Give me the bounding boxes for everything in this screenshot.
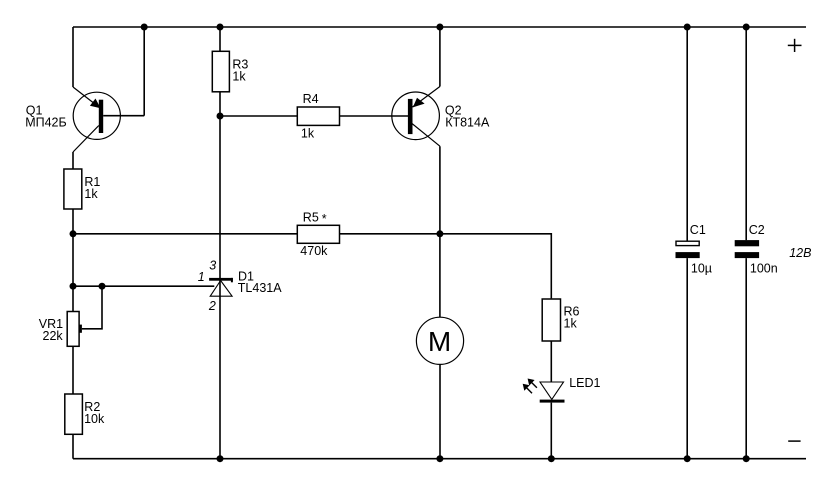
node top rail C2 <box>743 24 750 31</box>
transistor Q2 <box>392 87 440 147</box>
wire R2 to bottom rail <box>72 434 74 458</box>
wire R3 bottom to bottom rail through D1 <box>219 92 221 459</box>
svg-text:C2: C2 <box>749 223 765 237</box>
node R5 row x440 <box>436 230 443 237</box>
node top rail C1 <box>684 24 691 31</box>
node top rail x440 <box>436 24 443 31</box>
resistor R6 <box>542 299 560 341</box>
wire C2 bottom lead <box>745 258 747 459</box>
node R3 bottom / R4 <box>217 113 224 120</box>
LED LED1 <box>523 379 565 403</box>
svg-text:КТ814А: КТ814А <box>445 116 490 130</box>
wire R5 row right <box>340 234 552 299</box>
wire Q1 base riser <box>143 27 145 116</box>
wire D1 reference from left <box>73 285 214 287</box>
wire LED to bottom rail <box>550 403 552 459</box>
node bottom rail x220 <box>217 455 224 462</box>
shunt regulator D1 TL431A <box>209 278 233 296</box>
wire R5 row left <box>73 233 297 235</box>
node bottom rail x440 <box>436 455 443 462</box>
wire R6 to LED <box>550 341 552 382</box>
svg-text:2: 2 <box>208 299 216 313</box>
wire R3 top lead <box>219 27 221 51</box>
svg-text:10k: 10k <box>84 412 105 426</box>
node top rail x220 <box>217 24 224 31</box>
svg-text:C1: C1 <box>690 223 706 237</box>
svg-text:100n: 100n <box>750 262 778 276</box>
svg-text:МП42Б: МП42Б <box>25 116 67 130</box>
node bottom rail C1 <box>684 455 691 462</box>
svg-text:1: 1 <box>198 270 205 284</box>
wire top rail <box>73 26 806 28</box>
svg-text:3: 3 <box>209 258 216 272</box>
motor M1 <box>416 317 463 364</box>
node top rail x144 <box>141 24 148 31</box>
wire Q2 collector to motor <box>439 146 441 317</box>
resistor R3 <box>212 51 229 92</box>
node ref row x73 <box>70 283 77 290</box>
node ref row x102 <box>99 283 106 290</box>
svg-text:22k: 22k <box>43 329 64 343</box>
svg-text:1k: 1k <box>84 187 98 201</box>
wire R1 to VR1 <box>72 209 74 312</box>
resistor R2 <box>65 394 83 434</box>
svg-text:10µ: 10µ <box>691 262 712 276</box>
capacitor C2 <box>735 240 759 258</box>
wire C1 bottom lead <box>686 258 688 459</box>
wire base row to R4 <box>220 115 297 117</box>
resistor R5 <box>297 225 339 243</box>
svg-text:1k: 1k <box>564 317 578 331</box>
transistor Q1 <box>73 87 144 152</box>
svg-text:LED1: LED1 <box>569 376 600 390</box>
node bottom rail x551 <box>548 455 555 462</box>
svg-text:470k: 470k <box>300 244 328 258</box>
wire VR1 to R2 <box>72 346 74 394</box>
wire VR1 wiper <box>82 286 102 329</box>
svg-text:R4: R4 <box>303 92 319 106</box>
resistor R1 <box>64 169 82 209</box>
svg-text:1k: 1k <box>301 127 315 141</box>
svg-text:M: M <box>428 326 451 357</box>
svg-text:*: * <box>322 212 327 226</box>
capacitor C1 <box>676 241 700 258</box>
wire motor to bottom rail <box>439 364 441 458</box>
wire R4 to Q2 base <box>339 115 408 117</box>
wire Q1 collector to R1 <box>72 152 74 169</box>
wire C2 top lead <box>745 27 747 240</box>
plus terminal <box>788 39 802 52</box>
wire Q2 emitter riser <box>439 27 441 87</box>
potentiometer VR1 <box>67 312 82 347</box>
wire left drop from top rail to Q1 emitter bend <box>72 27 74 87</box>
wire C1 top lead <box>686 27 688 241</box>
node R5 row x73 <box>70 230 77 237</box>
resistor R4 <box>297 107 339 125</box>
wire bottom rail <box>73 458 806 460</box>
node bottom rail C2 <box>743 455 750 462</box>
svg-text:12В: 12В <box>789 246 811 260</box>
svg-text:R5: R5 <box>303 210 319 224</box>
svg-text:TL431A: TL431A <box>238 281 282 295</box>
svg-text:1k: 1k <box>232 70 246 84</box>
minus terminal <box>788 440 800 442</box>
